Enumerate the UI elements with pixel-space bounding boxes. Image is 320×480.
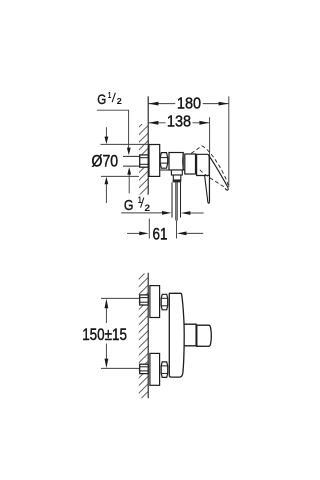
- wall hatch (front view): [139, 273, 148, 398]
- bottom escutcheon flange (front view): [150, 353, 160, 385]
- outlet thread pipe lines: [172, 182, 181, 238]
- label G 1/2 (upper inlet thread): [97, 90, 122, 107]
- top supply nut behind wall (front view): [140, 295, 149, 305]
- callout arrow pointing up at inlet pipe underside: [127, 167, 131, 193]
- dimension diameter 70: lower arrow pointing up: [105, 177, 109, 203]
- dimension 61: left arrow pointing right: [127, 232, 149, 236]
- svg-text:2: 2: [117, 96, 122, 106]
- top hex connection nut (front view): [161, 294, 168, 310]
- dimension 150±15: top extension line: [101, 297, 141, 299]
- wall face line (front view): [147, 273, 149, 398]
- dimension 61: left extension line (wall face): [148, 219, 150, 239]
- escutcheon flange at wall (side view): [149, 145, 160, 177]
- svg-text:Ø70: Ø70: [92, 151, 119, 170]
- lever blade pointing down (closed position): [205, 176, 210, 204]
- dimension 150±15: bottom extension line: [101, 367, 141, 369]
- dimension 61: value label: [153, 226, 168, 244]
- dimension 150±15: vertical dimension line with arrows: [105, 299, 109, 369]
- supply nut behind wall (side view): [140, 155, 149, 167]
- dimension 138: dimension line with arrows: [148, 121, 209, 125]
- dimension 150±15: value label: [82, 326, 127, 344]
- bottom hex connection nut (front view): [161, 362, 168, 378]
- cartridge step (front view): [184, 324, 196, 346]
- svg-text:1: 1: [138, 195, 142, 205]
- svg-text:138: 138: [167, 114, 191, 131]
- dimension 180: dimension line with arrows: [148, 102, 229, 106]
- hex connection nut (side view): [160, 153, 168, 169]
- top escutcheon flange (front view): [150, 286, 160, 318]
- knob cap with convex face (front view): [197, 325, 212, 346]
- svg-text:150±15: 150±15: [82, 326, 127, 344]
- dimension 61: right arrow pointing left: [177, 232, 203, 236]
- outlet hose nut (dark band): [173, 180, 182, 182]
- dimension diameter 70: top extension line: [101, 143, 150, 145]
- svg-text:180: 180: [177, 96, 201, 113]
- dimension diameter 70: upper arrow pointing down: [105, 127, 109, 144]
- wall hatch (side view): [139, 124, 148, 195]
- dimension 138: value label: [167, 114, 191, 131]
- cartridge cap section (side view): [185, 154, 196, 174]
- mixer body (side view): [160, 153, 188, 171]
- leader line for upper G1/2 label with down arrow to inlet pipe: [97, 110, 131, 155]
- leader of outlet G1/2 with right arrow: [121, 211, 171, 215]
- lever handle raised position (dashed top line): [191, 146, 228, 185]
- opposing arrow of outlet callout (from right): [181, 211, 204, 215]
- bottom supply nut behind wall (front view): [140, 364, 149, 373]
- lever base escutcheon (side view): [197, 154, 210, 175]
- dimension 138: extension line right: [209, 117, 211, 201]
- inlet pipe behind wall (side view): [123, 156, 140, 166]
- svg-text:1: 1: [108, 90, 112, 100]
- dimension 180: value label: [177, 96, 201, 113]
- svg-text:G: G: [97, 91, 106, 107]
- dimension diameter 70: bottom extension line: [101, 175, 139, 177]
- dimension 180: extension line right: [228, 96, 230, 187]
- wall face line (side view), also left extension line for 180/138: [147, 96, 149, 194]
- dimension diameter 70: value label: [92, 151, 119, 170]
- mixer body (front view, profile): [169, 293, 184, 377]
- svg-text:61: 61: [153, 226, 168, 244]
- svg-text:2: 2: [145, 203, 151, 213]
- svg-text:G: G: [124, 197, 134, 214]
- label G 1/2 (shower outlet thread): [124, 195, 150, 214]
- lever handle solid outline (down-right): [209, 156, 229, 191]
- lever handle raised position (dashed bottom line): [200, 170, 224, 187]
- shower outlet stub under body: [171, 170, 182, 180]
